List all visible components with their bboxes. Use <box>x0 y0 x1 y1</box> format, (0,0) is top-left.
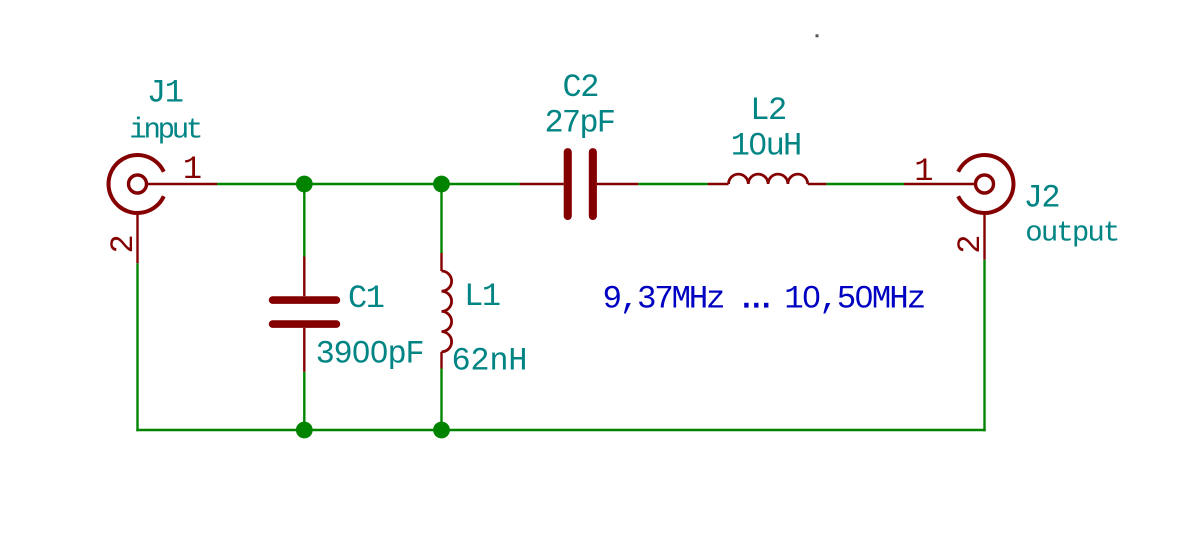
svg-text:2: 2 <box>105 234 142 253</box>
pin 2 of L2 <box>808 183 827 185</box>
svg-text:1: 1 <box>914 153 933 190</box>
wire C1 bottom <box>303 372 305 430</box>
pin 1 of J1 <box>147 183 218 185</box>
svg-text:9,37MHz: 9,37MHz <box>603 280 726 317</box>
pin 1 of L2 <box>708 183 729 185</box>
svg-text:10,50MHz: 10,50MHz <box>784 280 926 317</box>
wire bottom segment <box>136 429 985 431</box>
pin 2 of J2 <box>983 213 985 260</box>
inductor L1 coil <box>442 271 452 352</box>
svg-text:L1: L1 <box>464 278 500 315</box>
pin 2 of C2 <box>597 183 638 185</box>
wire segment L2 to J2 <box>826 183 904 185</box>
grid origin marker <box>816 34 819 37</box>
pin 2 of L1 <box>440 352 442 369</box>
svg-text:L2: L2 <box>750 92 786 129</box>
svg-text:62nH: 62nH <box>452 343 528 380</box>
inductor L2 coil <box>729 174 808 184</box>
svg-text:output: output <box>1025 217 1120 250</box>
wire L1 top <box>440 184 442 253</box>
pin 1 of J2 <box>904 183 976 185</box>
capacitor C1 plates <box>269 296 340 328</box>
wire J2 pin2 down <box>983 260 985 432</box>
wire top segment J1 to C2 <box>217 183 520 185</box>
connector J2 body <box>958 155 1013 213</box>
svg-text:C2: C2 <box>562 69 598 106</box>
connector J1 body <box>109 155 164 213</box>
svg-text:3900pF: 3900pF <box>316 336 425 373</box>
wire C1 top <box>303 184 305 257</box>
svg-text:C1: C1 <box>348 280 384 317</box>
svg-text:1: 1 <box>183 151 202 188</box>
svg-text:10uH: 10uH <box>731 128 803 165</box>
pin 2 of J1 <box>136 213 138 263</box>
pin 1 of C1 <box>303 257 305 297</box>
svg-text:input: input <box>129 114 203 147</box>
capacitor C2 plates <box>564 148 597 220</box>
wire J1 pin2 down <box>136 263 138 431</box>
svg-text:J1: J1 <box>147 74 183 111</box>
wire L1 bottom <box>440 369 442 431</box>
junction top B <box>433 176 450 193</box>
junction top A <box>296 176 313 193</box>
junction bottom B <box>433 422 450 439</box>
pin 1 of C2 <box>520 183 564 185</box>
junction bottom A <box>296 422 313 439</box>
svg-text:J2: J2 <box>1024 179 1060 216</box>
svg-text:27pF: 27pF <box>545 105 617 142</box>
pin 2 of C1 <box>303 328 305 372</box>
pin 1 of L1 <box>440 253 442 271</box>
wire segment C2 to L2 <box>638 183 707 185</box>
svg-text:2: 2 <box>952 235 989 254</box>
